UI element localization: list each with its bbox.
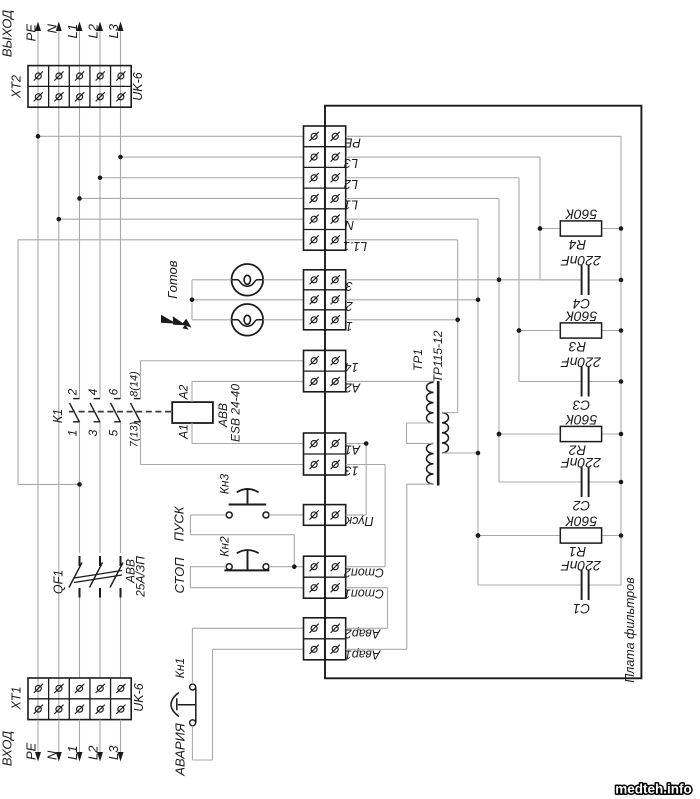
wire N (output, XT2 -> down) — [58, 24, 60, 720]
label 560K (R3) — [565, 309, 597, 325]
junction R4 left — [538, 226, 543, 231]
pin 8(14) K1 — [129, 371, 141, 397]
wire L2 branch to board terminal — [100, 177, 304, 179]
svg-text:L1: L1 — [65, 24, 80, 38]
junction L3 branch — [118, 155, 123, 160]
junction PE branch — [36, 134, 41, 139]
svg-text:7(13): 7(13) — [129, 421, 141, 447]
arrow PE output — [35, 22, 41, 32]
svg-text:Стоп1: Стоп1 — [344, 587, 384, 601]
wire L1.1 tap (from L1 below contactor up to board) — [18, 240, 304, 485]
arrow L1 input — [77, 752, 83, 762]
label TP115-12 — [431, 330, 445, 382]
terminal block XT1 — [28, 678, 131, 720]
label A2 — [177, 384, 191, 400]
label R3 — [568, 339, 586, 354]
wire coil A1 to terminal A1 — [192, 423, 304, 444]
breaker QF1 trip bar — [74, 571, 122, 583]
terminal label Авар2 — [345, 626, 381, 640]
svg-text:A1: A1 — [345, 443, 361, 457]
svg-text:C3: C3 — [572, 398, 590, 413]
contact K1 1-2 — [70, 399, 80, 423]
svg-text:560К: 560К — [565, 514, 597, 530]
terminal block XT2 — [28, 66, 131, 108]
svg-text:1: 1 — [66, 430, 80, 437]
svg-text:L1: L1 — [344, 197, 358, 211]
resistor R4 560K — [540, 221, 621, 236]
label ПУСК — [172, 505, 187, 541]
pin 2 K1 — [66, 388, 80, 396]
label L1 output — [65, 24, 80, 38]
wire L3 to R4 — [346, 157, 540, 280]
terminal label A2 — [345, 380, 361, 394]
terminal block Пуск — [304, 505, 346, 526]
label ABB 25A/3P — [124, 556, 148, 598]
label Кн3 — [218, 474, 232, 495]
label XT1 — [10, 687, 24, 711]
svg-text:ВХОД: ВХОД — [0, 731, 15, 766]
label 560K (R2) — [565, 412, 597, 428]
wire L2 (XT1 -> input arrow) — [99, 720, 101, 759]
wire PE to right bus — [346, 135, 621, 137]
junction lamps common — [190, 298, 195, 303]
svg-text:XT2: XT2 — [10, 75, 24, 99]
junction R3 left on L2 bus — [517, 328, 522, 333]
terminal label L3 — [344, 156, 358, 170]
wire terminal 1 to L1.1 bus — [346, 319, 458, 321]
arrow L3 input — [118, 752, 124, 762]
junction R2 left on L1 bus — [497, 432, 502, 437]
button Kn3 (ПУСК, NO) — [226, 489, 269, 518]
breaker QF1 pole at x=79.5 — [69, 556, 82, 598]
breaker QF1 pole at x=120.5 — [110, 556, 123, 598]
svg-text:medteh.info: medteh.info — [615, 782, 692, 797]
wire primary series jog — [407, 423, 434, 484]
svg-text:ТР115-12: ТР115-12 — [431, 330, 445, 382]
resistor R3 560K — [519, 323, 621, 338]
wire L3 branch to board terminal — [121, 156, 304, 158]
svg-text:A2: A2 — [345, 380, 361, 394]
wire Kn3 right to terminal Пуск — [269, 514, 304, 516]
svg-text:1: 1 — [346, 319, 353, 333]
svg-text:25А/ЗП: 25А/ЗП — [134, 556, 148, 598]
svg-text:13: 13 — [345, 464, 359, 478]
label C2 — [572, 498, 590, 513]
resistor R1 560K — [478, 528, 621, 543]
label R4 — [569, 237, 586, 252]
svg-text:PE: PE — [24, 24, 39, 42]
junction R2 right — [619, 432, 624, 437]
terminal block group 14/A2 — [304, 350, 346, 391]
terminal label Стоп1 — [344, 587, 384, 601]
junction C3 right — [619, 379, 624, 384]
wire lamp HL2 left — [192, 319, 232, 321]
junction A1 chain — [364, 441, 369, 446]
button Kn2 (СТОП, NC) — [224, 550, 269, 570]
junction stop chain — [292, 564, 297, 569]
junction L1 branch — [77, 196, 82, 201]
wire Kn1 top to terminal Авар2 — [192, 628, 303, 684]
button Kn1 (АВАРИЯ, emergency mushroom) — [171, 684, 196, 726]
terminal label L1.1 — [343, 239, 367, 253]
svg-text:L3: L3 — [344, 156, 358, 170]
wire N branch to board terminal — [59, 218, 304, 220]
contact K1 7(13)-8(14) — [131, 399, 141, 423]
junction N branch — [57, 217, 62, 222]
svg-text:L2: L2 — [86, 745, 101, 760]
svg-text:3: 3 — [346, 279, 353, 293]
svg-text:L1: L1 — [65, 746, 80, 760]
lamp HL2 — [232, 304, 264, 336]
wire lamp HL1 right to terminal 3 — [263, 279, 303, 281]
wire L1 (XT1 -> input arrow) — [79, 720, 81, 759]
wire L1 to R2 — [346, 198, 499, 482]
svg-text:6: 6 — [107, 388, 121, 395]
wire terminal Авар1 to transformer primary bottom — [346, 484, 407, 649]
wire terminal A2 to transformer primary — [346, 380, 434, 382]
svg-text:Кн3: Кн3 — [218, 474, 232, 495]
label L2 output — [86, 23, 101, 38]
terminal block group Авар2/Авар1 — [304, 618, 346, 660]
pin 6 K1 — [107, 388, 121, 395]
transformer TP1 secondary winding — [442, 413, 449, 453]
label 560K (R4) — [565, 207, 597, 223]
svg-text:ESB 24-40: ESB 24-40 — [229, 384, 243, 442]
svg-text:C1: C1 — [573, 601, 590, 616]
terminal label 3 — [346, 279, 353, 293]
pin 4 K1 — [86, 388, 100, 395]
svg-text:L1.1: L1.1 — [343, 239, 367, 253]
svg-text:220nF: 220nF — [560, 558, 602, 574]
transformer TP1 primary winding upper — [427, 382, 434, 423]
wire terminal A1 to Пуск chain — [346, 444, 367, 515]
svg-text:8(14): 8(14) — [129, 371, 141, 397]
mechanical link dashed line K1 — [69, 411, 172, 413]
svg-text:АВАРИЯ: АВАРИЯ — [173, 723, 188, 777]
label СТОП — [172, 557, 187, 594]
label ВХОД — [0, 731, 15, 766]
wire L1 branch to board terminal — [80, 197, 304, 199]
wire Kn3 left to stop chain — [190, 515, 294, 567]
svg-text:Пуск: Пуск — [345, 514, 374, 528]
capacitor C2 220nF — [499, 467, 621, 497]
label Кн1 — [173, 658, 187, 678]
label N input — [44, 750, 59, 760]
label N output — [44, 23, 59, 33]
svg-text:2: 2 — [66, 388, 80, 396]
wire Kn2 left to terminal Стоп1 — [190, 567, 303, 588]
label 560K (R1) — [565, 514, 597, 530]
lightning symbol — [161, 315, 192, 330]
capacitor C1 220nF — [478, 570, 621, 600]
arrow L1 output — [77, 22, 83, 32]
svg-text:220nF: 220nF — [560, 253, 602, 269]
svg-text:ВЫХОД: ВЫХОД — [0, 10, 15, 57]
transformer TP1 primary winding lower — [427, 443, 434, 484]
svg-text:СТОП: СТОП — [172, 557, 187, 594]
label C1 — [573, 601, 590, 616]
wire L3 (XT1 -> input arrow) — [120, 720, 122, 759]
arrow N output — [56, 22, 62, 32]
svg-text:N: N — [344, 218, 354, 232]
svg-text:560К: 560К — [565, 207, 597, 223]
terminal label Стоп2 — [344, 566, 384, 580]
arrow N input — [56, 752, 62, 762]
transformer TP1 core — [437, 381, 440, 486]
wire lamp HL2 right to terminal 1 — [263, 319, 303, 321]
wire K1 aux 8(14) to terminal 14 — [141, 361, 304, 399]
label Готов — [165, 260, 180, 298]
label 220nF (C1) — [560, 558, 602, 574]
wire L3 (output, XT2 -> down) — [120, 24, 122, 678]
svg-text:XT1: XT1 — [10, 687, 24, 711]
junction terminal1/L1.1 — [455, 318, 460, 323]
wire terminal 3 to C4 — [346, 279, 582, 281]
svg-text:C2: C2 — [572, 498, 590, 513]
junction R3 right — [619, 328, 624, 333]
svg-text:L2: L2 — [344, 177, 358, 191]
bus PE right vertical — [620, 136, 622, 585]
svg-text:UK-6: UK-6 — [132, 683, 146, 712]
svg-text:Кн1: Кн1 — [173, 658, 187, 678]
wire L1 (output, XT2 -> down) — [79, 24, 81, 678]
junction secondary bottom / N bus — [476, 451, 481, 456]
watermark medteh.info — [615, 782, 692, 797]
junction R3 left — [517, 328, 522, 333]
svg-text:14: 14 — [345, 360, 359, 374]
svg-text:Плата фильтров: Плата фильтров — [623, 577, 637, 683]
svg-text:220nF: 220nF — [560, 355, 602, 371]
label PE input — [24, 742, 39, 760]
svg-text:N: N — [44, 750, 59, 760]
terminal label 13 — [345, 464, 359, 478]
terminal label 14 — [345, 360, 359, 374]
label C3 — [572, 398, 590, 413]
label R1 — [569, 544, 586, 559]
terminal label N — [344, 218, 354, 232]
terminal label L2 — [344, 177, 358, 191]
svg-text:5: 5 — [107, 429, 121, 436]
label XT2 — [10, 75, 24, 99]
label 220nF (C2) — [560, 455, 602, 471]
junction R1 left on N bus — [476, 533, 481, 538]
pin 1 K1 — [66, 430, 80, 437]
svg-text:220nF: 220nF — [560, 455, 602, 471]
wire terminal 13 to Стоп2 — [346, 465, 385, 567]
label 220nF (C3) — [560, 355, 602, 371]
svg-text:R4: R4 — [569, 237, 586, 252]
terminal block group Стоп2/Стоп1 — [304, 556, 346, 598]
svg-text:A2: A2 — [177, 384, 191, 400]
terminal block group A1/13 — [304, 433, 346, 475]
wire coil A2 to terminal A2 — [192, 381, 304, 402]
svg-text:L2: L2 — [86, 23, 101, 38]
wire PE (XT1 -> input arrow) — [37, 720, 39, 759]
wire Kn1 bottom to terminal Авар1 — [192, 649, 303, 760]
wire K1 aux 7(13) to terminal 13 — [141, 422, 304, 464]
svg-text:560К: 560К — [565, 412, 597, 428]
label UK-6 (XT1) — [132, 683, 146, 712]
arrow L2 output — [97, 22, 103, 32]
label A1 — [177, 424, 191, 440]
arrow L2 input — [97, 752, 103, 762]
wire L2 to R3 — [346, 178, 519, 382]
pin 5 K1 — [107, 429, 121, 436]
label L2 input — [86, 745, 101, 760]
svg-text:ПУСК: ПУСК — [172, 505, 187, 541]
svg-text:UK-6: UK-6 — [131, 72, 145, 101]
terminal label 2 — [346, 299, 354, 313]
svg-text:N: N — [44, 23, 59, 33]
label Кн2 — [218, 536, 232, 557]
junction terminal2/N — [476, 298, 481, 303]
svg-text:2: 2 — [346, 299, 354, 313]
label R2 — [568, 443, 586, 458]
breaker QF1 label — [52, 570, 66, 594]
terminal label Пуск — [345, 514, 374, 528]
label ABB ESB 24-40 — [216, 384, 243, 442]
contact K1 5-6 — [111, 399, 121, 423]
wire L2 (output, XT2 -> down) — [99, 24, 101, 678]
terminal label L1 — [344, 197, 358, 211]
svg-text:A1: A1 — [177, 424, 191, 440]
label C4 — [573, 296, 590, 311]
wire lamp HL1 left — [192, 279, 232, 281]
label 220nF (C4) — [560, 253, 602, 269]
junction R4 left on L3 bus — [538, 226, 543, 231]
svg-text:R3: R3 — [568, 339, 586, 354]
svg-text:ТР1: ТР1 — [411, 349, 425, 371]
label PE output — [24, 24, 39, 42]
terminal label PE — [344, 135, 361, 149]
wire terminal 2 to N bus — [346, 299, 478, 301]
wire secondary top to terminal 1 bus — [442, 412, 458, 414]
junction terminal3/L1 — [497, 278, 502, 283]
breaker QF1 pole at x=100.0 — [90, 556, 103, 598]
wire Kn2 right to terminal Стоп2 — [269, 566, 304, 568]
svg-text:Готов: Готов — [165, 260, 180, 298]
terminal label A1 — [345, 443, 361, 457]
label ВЫХОД — [0, 10, 15, 57]
junction L1.1 tap on L1 — [77, 482, 82, 487]
wire PE (output, XT2 -> down) — [37, 24, 39, 720]
wire terminal Стоп1 to Авар2 — [346, 588, 388, 629]
junction C4 right — [619, 278, 624, 283]
junction R1 right — [619, 533, 624, 538]
wire L1.1 to transformer — [346, 240, 458, 413]
wire lamps common to terminal 2 — [192, 280, 304, 320]
contactor K1 label — [51, 409, 65, 423]
svg-text:PE: PE — [344, 135, 361, 149]
junction R2 left — [497, 432, 502, 437]
wire PE branch to board terminal — [38, 135, 304, 137]
wire N to R1 — [346, 219, 478, 585]
junction L2 branch — [98, 175, 103, 180]
wire secondary bottom to N bus — [442, 452, 478, 454]
svg-text:Кн2: Кн2 — [218, 536, 232, 557]
filter board outline (Плата фильтров) — [325, 106, 641, 679]
terminal label 1 — [346, 319, 353, 333]
terminal label Авар1 — [345, 647, 381, 661]
arrow L3 output — [118, 22, 124, 32]
lamp HL1 (Готов) — [232, 264, 264, 296]
junction R4 right — [619, 226, 624, 231]
svg-text:PE: PE — [24, 742, 39, 760]
resistor R2 560K — [499, 426, 621, 441]
contact K1 3-4 — [90, 399, 100, 423]
label UK-6 (XT2) — [131, 72, 145, 101]
svg-text:4: 4 — [86, 388, 100, 395]
svg-text:Стоп2: Стоп2 — [344, 566, 384, 580]
label L1 input — [65, 746, 80, 760]
label АВАРИЯ — [173, 723, 188, 777]
terminal block group PE/L3/L2/L1/N/L1.1 — [304, 126, 346, 250]
arrow PE input — [35, 752, 41, 762]
svg-text:R1: R1 — [569, 544, 586, 559]
svg-text:560К: 560К — [565, 309, 597, 325]
svg-text:3: 3 — [86, 429, 100, 436]
svg-text:L3: L3 — [106, 23, 121, 38]
terminal block group 3/2/1 — [304, 270, 346, 330]
capacitor C3 220nF — [519, 367, 621, 397]
junction C2 right — [619, 480, 624, 485]
svg-text:К1: К1 — [51, 409, 65, 423]
label TP1 — [411, 349, 425, 371]
label L3 input — [106, 745, 121, 760]
pin 7(13) K1 — [129, 421, 141, 447]
label L3 output — [106, 23, 121, 38]
svg-text:QF1: QF1 — [52, 570, 66, 594]
wire N (XT1 -> input arrow) — [58, 720, 60, 759]
contactor coil K1 (A1-A2) ABB ESB 24-40 — [172, 402, 213, 423]
label Плата фильтров — [623, 577, 637, 683]
pin 3 K1 — [86, 429, 100, 436]
capacitor C4 220nF — [540, 265, 621, 295]
junction R1 left — [476, 533, 481, 538]
svg-text:L3: L3 — [106, 745, 121, 760]
